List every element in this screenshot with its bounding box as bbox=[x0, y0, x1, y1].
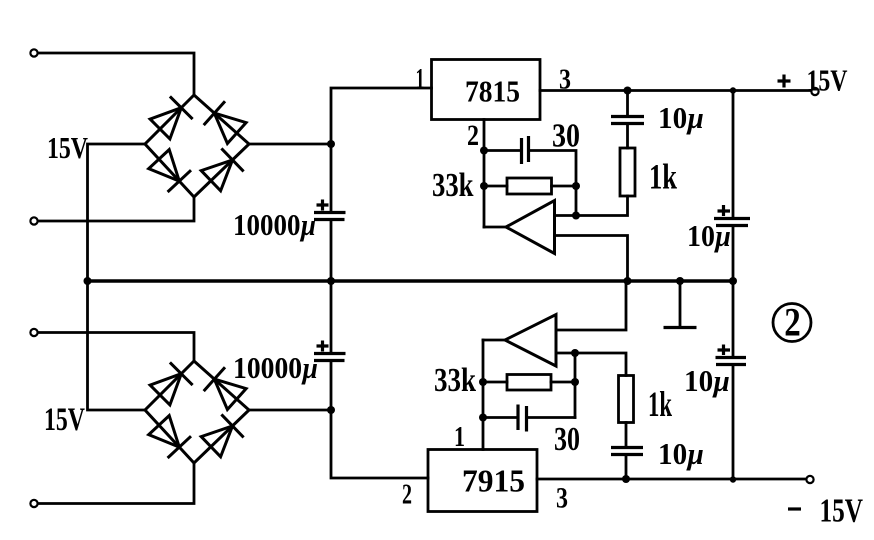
wire bbox=[249, 143, 331, 146]
bridge rectifier B2 bbox=[145, 361, 249, 463]
label -15V bbox=[788, 507, 801, 510]
wire (R2 bottom to op-amp input) bbox=[555, 196, 628, 216]
svg-text:3: 3 bbox=[556, 482, 568, 515]
node bbox=[84, 277, 92, 285]
svg-text:33k: 33k bbox=[434, 362, 476, 399]
wire bbox=[330, 220, 333, 282]
svg-text:1k: 1k bbox=[649, 157, 677, 197]
node bbox=[479, 414, 487, 422]
wire bbox=[529, 151, 577, 216]
wire (feedback node vertical) bbox=[574, 353, 577, 418]
capacitor C4 10u bbox=[714, 205, 750, 226]
node bbox=[571, 378, 579, 386]
wire bbox=[249, 409, 331, 412]
wire bbox=[626, 91, 629, 117]
bridge B2 diamond bbox=[145, 361, 249, 463]
node bbox=[480, 182, 488, 190]
wire (U3 output down to U4 pin 1) bbox=[482, 340, 485, 450]
op-amp U2 bbox=[506, 201, 555, 254]
resistor R1 33k bbox=[507, 178, 552, 194]
wire (right rail upper) bbox=[732, 91, 735, 219]
capacitor C1 10000u bbox=[314, 200, 346, 220]
node bbox=[571, 349, 579, 357]
node bbox=[622, 475, 630, 483]
capacitor C5 10u bbox=[611, 448, 643, 455]
voltage regulator U1 7815 bbox=[432, 60, 541, 120]
wire bbox=[483, 381, 575, 384]
terminal J2 (upper AC input, bottom) bbox=[30, 217, 37, 224]
resistor R4 33k bbox=[507, 375, 551, 391]
svg-text:15V: 15V bbox=[820, 493, 864, 530]
wire (U1 pin 2) bbox=[483, 120, 486, 228]
diode D6 bbox=[214, 379, 246, 409]
wire bbox=[732, 226, 735, 358]
svg-text:33k: 33k bbox=[432, 167, 474, 204]
node bbox=[572, 212, 580, 220]
diode D3 bbox=[149, 150, 180, 182]
svg-text:7815: 7815 bbox=[465, 74, 520, 109]
capacitor C7 10000u bbox=[314, 341, 346, 361]
terminal J4 (lower AC input, bottom) bbox=[30, 500, 37, 507]
node bbox=[327, 277, 335, 285]
diode D8 bbox=[201, 426, 232, 457]
node bbox=[327, 406, 335, 414]
wire bbox=[483, 416, 575, 419]
svg-text:1k: 1k bbox=[648, 384, 672, 424]
svg-text:10000µ: 10000µ bbox=[233, 350, 318, 385]
op-amp U3 bbox=[505, 315, 556, 367]
wire bbox=[625, 423, 628, 448]
svg-text:10µ: 10µ bbox=[684, 363, 730, 398]
label +15V bbox=[778, 75, 791, 88]
wire bbox=[625, 455, 628, 480]
wire bbox=[331, 88, 432, 144]
wire bbox=[331, 361, 428, 479]
node bbox=[676, 277, 684, 285]
wire (bus to U3 upper input) bbox=[556, 281, 626, 330]
node bbox=[730, 476, 736, 482]
resistor R3 1k bbox=[619, 376, 634, 423]
polarity mark bbox=[718, 345, 731, 356]
svg-text:1: 1 bbox=[416, 64, 425, 95]
ground bbox=[664, 281, 697, 328]
diode D5 bbox=[150, 374, 181, 405]
node bbox=[480, 147, 488, 155]
svg-text:2: 2 bbox=[467, 119, 479, 152]
wire (-15V rail) bbox=[537, 478, 807, 481]
ground bus wire bbox=[88, 279, 734, 282]
capacitor C6 30 bbox=[518, 405, 527, 432]
wire (U2 output) bbox=[484, 226, 506, 229]
terminal J1 (upper AC input, top) bbox=[30, 49, 37, 56]
svg-text:30: 30 bbox=[554, 421, 580, 458]
wire bbox=[88, 144, 146, 281]
terminal J5 (+15V output) bbox=[811, 88, 818, 95]
wire bbox=[626, 124, 629, 149]
svg-text:30: 30 bbox=[552, 118, 580, 155]
voltage regulator U4 7915 bbox=[428, 450, 537, 512]
node bbox=[479, 378, 487, 386]
node bbox=[624, 277, 632, 285]
node bbox=[729, 277, 737, 285]
wire (U3 output) bbox=[483, 339, 505, 342]
diode D1 bbox=[150, 108, 181, 139]
wire (+15V rail) bbox=[540, 89, 812, 92]
svg-text:10µ: 10µ bbox=[687, 218, 731, 253]
svg-text:15V: 15V bbox=[47, 130, 88, 165]
svg-text:10000µ: 10000µ bbox=[233, 207, 316, 242]
wire bbox=[484, 185, 576, 188]
capacitor C8 10u bbox=[716, 345, 747, 365]
diode D2 bbox=[214, 113, 246, 143]
svg-text:7915: 7915 bbox=[462, 463, 525, 499]
wire (U2 lower input to ground bus) bbox=[555, 236, 628, 282]
polarity mark bbox=[718, 205, 731, 216]
node bbox=[624, 87, 632, 95]
wire (U3 lower input) bbox=[556, 353, 626, 376]
wire bbox=[38, 197, 194, 221]
wire bbox=[330, 281, 333, 354]
terminal J6 (-15V output) bbox=[806, 476, 813, 483]
diode D7 bbox=[149, 416, 180, 448]
polarity mark bbox=[317, 341, 329, 352]
node (bridge B1 + output) bbox=[327, 140, 335, 148]
svg-text:2: 2 bbox=[784, 300, 801, 345]
wire bbox=[38, 53, 194, 95]
diode D4 bbox=[201, 160, 232, 191]
svg-text:10µ: 10µ bbox=[658, 100, 704, 135]
wire bbox=[484, 149, 522, 152]
node bbox=[572, 182, 580, 190]
terminal J3 (lower AC input, top) bbox=[30, 329, 37, 336]
wire bbox=[88, 281, 146, 410]
node bbox=[730, 87, 736, 93]
capacitor C3 10u bbox=[611, 117, 644, 124]
wire bbox=[38, 463, 194, 504]
svg-text:2: 2 bbox=[402, 480, 412, 511]
bridge B1 diamond bbox=[145, 95, 249, 197]
svg-text:10µ: 10µ bbox=[658, 436, 704, 471]
figure number label (2) bbox=[773, 300, 811, 345]
resistor R2 1k bbox=[620, 148, 635, 196]
polarity mark bbox=[317, 200, 329, 211]
svg-text:15V: 15V bbox=[807, 63, 848, 98]
wire bbox=[38, 333, 194, 362]
wire (capacitor C1 upper lead) bbox=[330, 144, 333, 213]
bridge rectifier B1 bbox=[145, 95, 249, 197]
capacitor C2 30 bbox=[522, 136, 529, 164]
svg-text:15V: 15V bbox=[44, 402, 85, 438]
wire (right rail lower) bbox=[732, 365, 735, 480]
